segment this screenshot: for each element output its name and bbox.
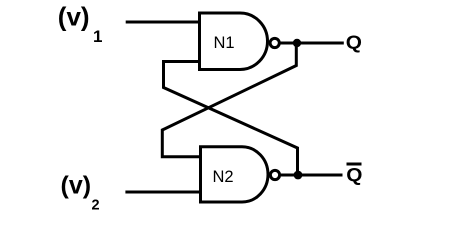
wire: feedback from N1 pin 2 down-diagonal to N2 output node xyxy=(164,62,298,176)
wire: input V1 to NAND N1 pin 1 xyxy=(126,21,200,24)
svg-text:(v): (v) xyxy=(61,172,92,200)
inversion bubble on N2 output xyxy=(270,170,279,179)
svg-text:1: 1 xyxy=(93,27,102,46)
junction node at Q xyxy=(293,39,301,47)
overbar of Qbar xyxy=(347,163,362,166)
nand gate N2 body xyxy=(201,147,269,202)
wire: N1 output to Q xyxy=(280,42,344,45)
inversion bubble on N1 output xyxy=(270,38,279,47)
svg-text:N2: N2 xyxy=(213,168,234,186)
svg-text:N1: N1 xyxy=(214,34,235,52)
wire: feedback from Q node down-diagonal to N2 pin 1 xyxy=(162,43,296,157)
svg-text:(v): (v) xyxy=(58,2,90,32)
svg-text:2: 2 xyxy=(92,198,100,214)
nand gate N1 body xyxy=(200,13,268,70)
wire: N2 output to Qbar xyxy=(281,174,343,177)
junction node at Qbar xyxy=(294,171,303,180)
svg-text:Q: Q xyxy=(346,32,362,52)
svg-text:Q: Q xyxy=(346,165,362,185)
wire: input V2 to NAND N2 pin 2 xyxy=(125,191,200,194)
